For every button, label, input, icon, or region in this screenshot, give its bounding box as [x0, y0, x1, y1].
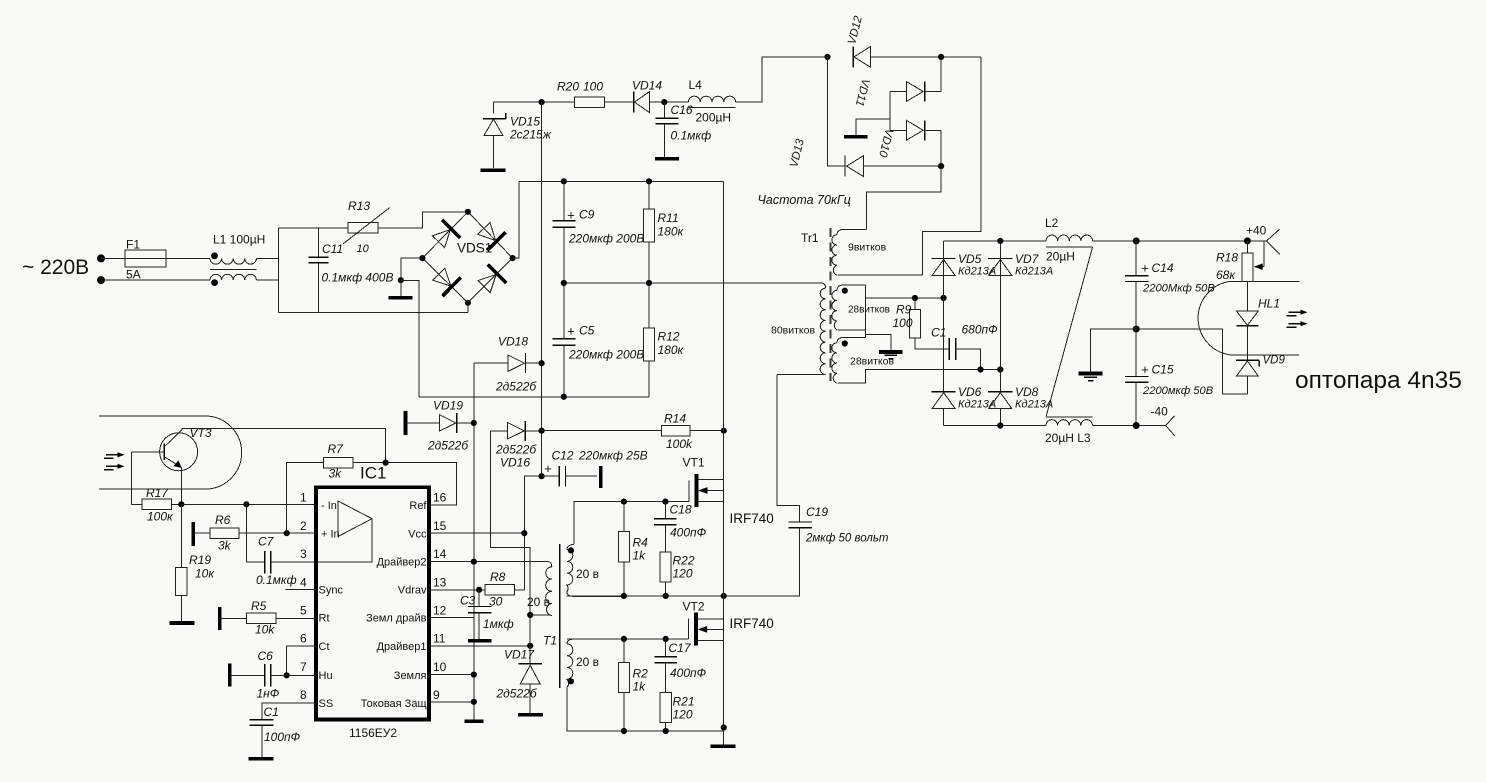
- svg-text:R13: R13: [348, 199, 370, 213]
- transistor VT3: [131, 430, 197, 471]
- node VD18 cathode junction: [539, 360, 545, 366]
- resistor R8: [485, 585, 524, 596]
- svg-text:680пФ: 680пФ: [962, 323, 999, 337]
- wire R13 to bridge top: [378, 212, 468, 228]
- svg-text:R21: R21: [673, 695, 695, 709]
- diode VD7: [988, 259, 1012, 276]
- svg-text:200µH: 200µH: [696, 111, 732, 125]
- node VD15 R20 junction: [539, 99, 545, 105]
- svg-text:VD8: VD8: [1015, 385, 1039, 399]
- node pin10 junction: [471, 672, 477, 678]
- wire anode bus to terminal bar: [856, 119, 890, 135]
- diode VD13: [845, 156, 941, 177]
- optocoupler body HL1 side: [1198, 281, 1230, 355]
- svg-text:400пФ: 400пФ: [670, 526, 707, 540]
- wire L1 top to filter box: [257, 257, 279, 259]
- svg-text:VT1: VT1: [683, 456, 705, 470]
- wire bridge right vertex to C9 rail riser: [513, 181, 520, 258]
- wire T1 top secondary top to gate rail: [574, 502, 689, 544]
- svg-text:100: 100: [583, 80, 603, 94]
- transformer Tr1 winding 9 turns: [832, 229, 923, 275]
- wire center tap to ground: [865, 330, 891, 350]
- node VT2 source rail junction: [721, 724, 727, 730]
- ground bar IC bus: [464, 719, 483, 723]
- svg-text:VD7: VD7: [1015, 252, 1040, 266]
- transformer T1 bottom secondary: [567, 639, 624, 731]
- wire output top rail: [944, 240, 1047, 242]
- svg-text:180к: 180к: [658, 225, 685, 239]
- svg-text:C6: C6: [258, 649, 274, 663]
- svg-text:R9: R9: [896, 303, 912, 317]
- svg-text:C12: C12: [552, 449, 574, 463]
- svg-text:4: 4: [300, 576, 307, 590]
- wire pin1 branch to C7: [246, 504, 264, 562]
- svg-text:Vcc: Vcc: [408, 529, 427, 541]
- svg-text:F1: F1: [126, 238, 140, 252]
- svg-text:Hu: Hu: [319, 670, 333, 682]
- svg-text:L1 100µH: L1 100µH: [213, 233, 265, 247]
- LED HL1: [1237, 281, 1259, 360]
- wire pin13 to R8: [429, 589, 485, 591]
- node Vcc junction: [521, 530, 527, 536]
- svg-text:0.1мкф 400В: 0.1мкф 400В: [322, 271, 394, 285]
- svg-text:3k: 3k: [329, 467, 343, 481]
- node C16 junction: [661, 99, 667, 105]
- node VD13 right junction: [938, 163, 944, 169]
- wire L3 to minus terminal: [1093, 425, 1166, 427]
- capacitor C16: [656, 102, 679, 157]
- resistor R14: [542, 425, 724, 436]
- ground bar at bridge: [388, 296, 412, 300]
- svg-text:10к: 10к: [195, 567, 215, 581]
- ground bar below VD15: [481, 169, 506, 173]
- svg-text:0.1мкф: 0.1мкф: [256, 573, 297, 587]
- node C1 bottom junction: [977, 366, 983, 372]
- svg-text:R20: R20: [557, 80, 579, 94]
- node R9 top: [912, 295, 918, 301]
- capacitor C1 680пФ: [949, 338, 980, 370]
- wire bottom driver rail: [567, 730, 724, 732]
- svg-text:2200Мкф 50В: 2200Мкф 50В: [1142, 283, 1215, 295]
- svg-text:L4: L4: [689, 78, 703, 92]
- wire 28 turns top to R9 node: [865, 285, 943, 298]
- wire optocoupler lower line: [1231, 354, 1300, 356]
- svg-text:R12: R12: [658, 330, 680, 344]
- svg-text:C14: C14: [1152, 261, 1174, 275]
- capacitor C7: [265, 551, 316, 574]
- node VD7 VD8 mid junction: [997, 366, 1003, 372]
- node C9 top: [561, 178, 567, 184]
- svg-text:C16: C16: [671, 103, 693, 117]
- light arrows HL1: [1287, 310, 1308, 328]
- svg-text:10k: 10k: [255, 623, 275, 637]
- wire R20 to VD14: [605, 101, 634, 103]
- transformer Tr1 core dashed: [830, 228, 832, 381]
- svg-text:80витков: 80витков: [771, 325, 815, 337]
- svg-text:оптопара 4n35: оптопара 4n35: [1295, 367, 1462, 394]
- transformer Tr1 winding 28 turns upper: [832, 285, 866, 330]
- terminal bar C1: [248, 757, 273, 761]
- resistor R13: [343, 208, 390, 244]
- node R14 right junction: [721, 428, 727, 434]
- inductor L1 common-mode choke: [210, 252, 257, 286]
- svg-text:Sync: Sync: [319, 585, 344, 597]
- node T1 primary bottom junction: [527, 612, 533, 618]
- ground output mid: [1079, 374, 1103, 381]
- wire main HV bus vertical: [541, 102, 543, 476]
- svg-text:2с215ж: 2с215ж: [509, 128, 552, 142]
- wire pin1 net: [181, 503, 316, 505]
- wire VD15 node riser: [492, 102, 494, 113]
- wire VD7 vertical: [999, 241, 1001, 392]
- wire pin12 to ground bus: [429, 617, 474, 619]
- resistor R22: [660, 552, 671, 596]
- node output mid junction: [1133, 326, 1140, 333]
- svg-text:SS: SS: [319, 698, 334, 710]
- svg-text:R17: R17: [146, 486, 169, 500]
- svg-text:R8: R8: [490, 570, 506, 584]
- svg-text:68к: 68к: [1216, 268, 1236, 282]
- svg-text:Кд213А: Кд213А: [1015, 399, 1053, 411]
- node R2 top: [621, 636, 627, 642]
- inductor L3: [1046, 417, 1093, 426]
- svg-text:~ 220В: ~ 220В: [22, 256, 89, 279]
- svg-text:5A: 5A: [126, 268, 141, 282]
- svg-text:L2: L2: [1045, 216, 1059, 230]
- node pin13 C3 junction: [476, 587, 482, 593]
- wire VD12 to node B: [871, 56, 982, 58]
- wire ground bus vertical: [473, 363, 475, 721]
- svg-text:R5: R5: [251, 599, 267, 613]
- capacitor C1 100пФ: [249, 720, 273, 757]
- svg-text:100: 100: [893, 316, 913, 330]
- svg-text:180к: 180к: [658, 343, 685, 357]
- resistor R4: [618, 502, 629, 596]
- node bridge left vertex: [419, 255, 425, 261]
- optocoupler body VT3 side: [99, 416, 242, 489]
- node bridge right vertex: [509, 255, 515, 261]
- diode VD8: [988, 392, 1012, 426]
- svg-text:5: 5: [300, 604, 307, 618]
- svg-text:C11: C11: [322, 242, 343, 256]
- svg-text:+: +: [567, 324, 575, 339]
- terminal bar R5: [218, 607, 222, 630]
- svg-text:R14: R14: [664, 412, 686, 426]
- wire R18 bottom stub: [1231, 280, 1300, 282]
- wire pin9 to ground bus: [429, 701, 474, 703]
- node C14 top: [1133, 237, 1140, 244]
- wire VT1 drain bus: [723, 181, 725, 479]
- svg-text:VD16: VD16: [500, 456, 530, 470]
- terminal bar R19: [170, 621, 195, 625]
- node C5 top: [561, 280, 567, 286]
- resistor R6: [193, 528, 316, 539]
- wire bridge bottom vertex down: [467, 303, 469, 313]
- wire filter box bottom edge to bridge bottom: [278, 311, 468, 313]
- svg-text:10: 10: [357, 243, 370, 255]
- svg-text:20µH: 20µH: [1046, 250, 1075, 264]
- svg-text:VD9: VD9: [1263, 355, 1286, 367]
- svg-text:IRF740: IRF740: [730, 616, 774, 631]
- capacitor C5: [553, 283, 576, 397]
- svg-text:VDS1: VDS1: [457, 241, 492, 256]
- node VD19 cathode junction: [471, 420, 477, 426]
- diode VD12: [853, 47, 870, 68]
- svg-text:100k: 100k: [666, 437, 693, 451]
- terminal bar C3: [468, 639, 492, 643]
- node R7 right junction: [383, 460, 389, 466]
- wire VD14 to C16 node and L4: [650, 101, 689, 103]
- transistor VT1 MOSFET: [680, 474, 724, 507]
- resistor R7: [287, 457, 457, 533]
- wire pin11 driver1: [429, 645, 530, 647]
- wire VT3 base loop: [130, 452, 132, 505]
- wire mid rail to Tr1 primary top: [564, 282, 822, 284]
- wire L1 bottom to filter box: [257, 279, 279, 281]
- transformer T1 primary winding: [530, 562, 552, 616]
- svg-text:7: 7: [300, 660, 307, 674]
- capacitor C18: [654, 502, 676, 552]
- svg-text:0.1мкф: 0.1мкф: [671, 129, 712, 143]
- node VD5 VD6 mid junction: [941, 295, 947, 301]
- svg-text:Драйвер1: Драйвер1: [377, 641, 427, 653]
- node B VD12 right: [938, 54, 944, 60]
- svg-text:-40: -40: [1151, 405, 1169, 419]
- node pin9 junction: [471, 699, 477, 705]
- resistor R9: [909, 298, 949, 349]
- node pin1 branch: [243, 501, 249, 507]
- svg-text:Токовая Защ: Токовая Защ: [361, 698, 427, 710]
- capacitor C12: [542, 466, 597, 487]
- bridge rectifier VDS1: [422, 212, 512, 303]
- op-amp inside IC1: [318, 501, 372, 562]
- ground bar VD17: [518, 713, 543, 717]
- wire DC minus rail: [419, 396, 649, 398]
- resistor R2: [618, 639, 629, 731]
- wire filter box left edge: [277, 228, 279, 313]
- svg-text:1нФ: 1нФ: [257, 687, 280, 701]
- svg-text:10: 10: [433, 660, 447, 674]
- svg-text:C5: C5: [579, 324, 595, 338]
- wire gate rail lower VT1: [567, 595, 724, 598]
- wire VD5 vertical: [943, 241, 945, 392]
- svg-text:VD6: VD6: [958, 385, 982, 399]
- node input terminal bottom: [97, 276, 105, 284]
- svg-text:C18: C18: [670, 503, 692, 517]
- svg-text:+ In: + In: [321, 529, 340, 541]
- wire VT1 source to VT2 drain: [723, 501, 725, 618]
- node VD8 bottom: [997, 422, 1003, 428]
- ground bar below C16: [655, 157, 679, 161]
- svg-text:13: 13: [433, 576, 447, 590]
- svg-text:1156ЕУ2: 1156ЕУ2: [349, 726, 397, 740]
- wire VD16 anode drop: [491, 431, 531, 664]
- node VD7 top: [997, 238, 1003, 244]
- diode VD14: [634, 92, 650, 113]
- terminal bar C6: [228, 663, 232, 686]
- wire pin15 Vcc: [429, 532, 524, 534]
- wire input top to fuse: [101, 257, 125, 259]
- wire input bottom to L1: [101, 279, 210, 281]
- svg-text:C17: C17: [669, 641, 692, 655]
- node R22 bottom: [663, 593, 669, 599]
- node R11 top: [646, 178, 652, 184]
- IC U1 1156EU2 box: [316, 487, 429, 719]
- zener diode VD15: [483, 113, 506, 168]
- svg-text:12: 12: [433, 604, 447, 618]
- wire fuse to L1: [166, 257, 210, 259]
- wire VT2 source down: [723, 640, 725, 744]
- svg-text:VD18: VD18: [498, 335, 528, 349]
- node input terminal top: [97, 254, 105, 262]
- wire output bottom rail: [944, 425, 1046, 427]
- svg-text:20 в: 20 в: [527, 595, 550, 609]
- svg-text:9витков: 9витков: [848, 242, 887, 254]
- wire L4 to top node A: [736, 57, 828, 102]
- capacitor C6: [230, 664, 316, 686]
- svg-text:VD5: VD5: [958, 252, 982, 266]
- svg-text:Vdrav: Vdrav: [398, 585, 427, 597]
- node C12 junction: [539, 473, 545, 479]
- node pin14 junction: [471, 559, 477, 565]
- svg-text:Кд213А: Кд213А: [1015, 266, 1053, 278]
- node C15 bottom: [1133, 422, 1140, 429]
- node bridge top vertex: [465, 209, 471, 215]
- wire VD10 cathode down to VD13 node: [940, 130, 942, 166]
- transformer Tr1 winding 28 turns lower: [832, 330, 1000, 383]
- svg-text:VD15: VD15: [510, 115, 540, 129]
- svg-text:VD19: VD19: [433, 399, 463, 413]
- resistor R20: [575, 97, 605, 108]
- svg-text:1k: 1k: [633, 549, 647, 563]
- wire mid node to ground: [1091, 329, 1137, 372]
- transformer T1 core: [559, 544, 561, 688]
- svg-text:R11: R11: [658, 211, 679, 225]
- svg-text:C7: C7: [258, 535, 275, 549]
- svg-text:R22: R22: [673, 554, 695, 568]
- node VT1 source junction: [721, 593, 727, 599]
- node pin2 R7 junction: [284, 530, 290, 536]
- resistor R17: [131, 499, 181, 510]
- wire minus node down to ground: [400, 280, 402, 296]
- svg-text:C15: C15: [1152, 363, 1174, 377]
- coupling line L2 L3: [1046, 247, 1093, 417]
- svg-text:400пФ: 400пФ: [670, 666, 707, 680]
- node R14 VD16 junction: [539, 428, 545, 434]
- svg-text:R18: R18: [1216, 251, 1238, 265]
- svg-text:Ct: Ct: [319, 641, 330, 653]
- svg-text:R2: R2: [633, 667, 649, 681]
- svg-text:R7: R7: [328, 442, 345, 456]
- svg-text:HL1: HL1: [1258, 297, 1280, 311]
- svg-text:C9: C9: [579, 208, 595, 222]
- svg-text:16: 16: [433, 491, 447, 505]
- svg-text:2д522б: 2д522б: [496, 687, 538, 701]
- wire pin8 to C1: [262, 703, 316, 720]
- terminal bar C12: [599, 466, 603, 488]
- node C17 top: [663, 636, 669, 642]
- svg-text:20 в: 20 в: [576, 567, 599, 581]
- capacitor C11: [309, 228, 329, 313]
- wire node B branch down to Tr1 9 turns bottom: [922, 57, 981, 275]
- svg-text:120: 120: [673, 708, 693, 722]
- resistor R5: [220, 613, 316, 624]
- diode VD11: [890, 82, 941, 102]
- wire zero volt rail to VD9: [1136, 329, 1247, 394]
- capacitor C19: [724, 374, 812, 596]
- transistor VT2 MOSFET: [689, 613, 724, 646]
- svg-text:9: 9: [433, 688, 440, 702]
- potentiometer R18: [1242, 241, 1264, 281]
- resistor R21: [660, 693, 671, 732]
- wire pin10 to ground bus: [429, 674, 474, 676]
- node pin7 junction: [284, 672, 290, 678]
- capacitor C3: [468, 590, 492, 639]
- node R4 bottom: [621, 593, 627, 599]
- terminal chevron -40: [1166, 416, 1175, 436]
- svg-text:Rt: Rt: [319, 613, 330, 625]
- wire filter box top edge to R13: [278, 227, 348, 229]
- svg-text:Земл драйв: Земл драйв: [366, 613, 427, 625]
- svg-text:220мкф 200В: 220мкф 200В: [568, 232, 644, 246]
- resistor R19: [176, 504, 187, 621]
- inductor L4: [688, 96, 735, 107]
- wire VD13 node to Tr1 9 turns top: [866, 166, 941, 229]
- node C5 bottom: [561, 394, 567, 400]
- resistor R12: [643, 283, 654, 397]
- svg-text:VD17: VD17: [504, 648, 535, 662]
- wire C12 node to Vcc bus: [524, 476, 541, 590]
- svg-text:120: 120: [673, 567, 693, 581]
- diode VD6: [932, 392, 956, 426]
- wire minus node to vertical bus: [401, 281, 419, 397]
- wire DC plus top rail: [519, 180, 724, 182]
- diode VD5: [932, 259, 956, 276]
- svg-text:+: +: [1141, 261, 1149, 276]
- svg-text:+: +: [544, 461, 552, 476]
- diode VD18: [474, 353, 542, 373]
- svg-text:IRF740: IRF740: [730, 511, 774, 526]
- diode VD17: [519, 664, 542, 713]
- svg-text:3k: 3k: [218, 539, 232, 553]
- svg-text:C3: C3: [460, 594, 476, 608]
- node R2 bottom: [621, 728, 627, 734]
- terminal bar VD10 VD11: [844, 135, 868, 139]
- capacitor C9: [553, 181, 576, 283]
- svg-text:Земля: Земля: [394, 670, 427, 682]
- fuse F1: [125, 250, 166, 267]
- svg-text:Tr1: Tr1: [801, 231, 819, 245]
- capacitor C15: [1125, 329, 1149, 426]
- svg-text:+: +: [1141, 362, 1149, 377]
- svg-text:2: 2: [300, 519, 307, 533]
- wire L2 to plus terminal: [1093, 240, 1267, 242]
- svg-text:1мкф: 1мкф: [483, 617, 514, 631]
- terminal bar R6: [192, 522, 196, 546]
- svg-text:100к: 100к: [147, 510, 174, 524]
- svg-text:Частота 70кГц: Частота 70кГц: [758, 193, 851, 207]
- diode VD19: [406, 413, 474, 433]
- node R4 top: [621, 499, 627, 505]
- capacitor C14: [1125, 241, 1149, 329]
- wire VT3 emitter down: [180, 467, 182, 504]
- svg-text:2мкф 50 вольт: 2мкф 50 вольт: [805, 533, 889, 545]
- svg-text:14: 14: [433, 547, 447, 561]
- svg-text:T1: T1: [543, 634, 557, 648]
- wire pin14 driver2: [429, 561, 549, 563]
- svg-text:220мкф 25В: 220мкф 25В: [578, 449, 648, 463]
- svg-text:VT2: VT2: [683, 600, 705, 614]
